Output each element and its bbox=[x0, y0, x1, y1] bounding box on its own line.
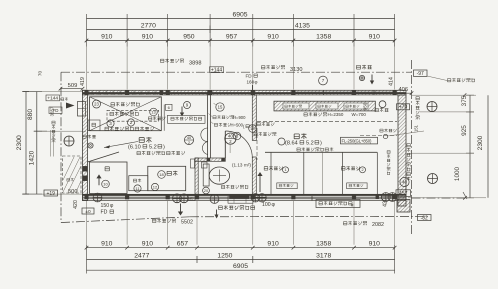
note leader bbox=[209, 114, 213, 117]
label hanging door note1 bbox=[213, 115, 234, 119]
shop dashed line upper bbox=[257, 120, 397, 122]
wall bottom bbox=[83, 194, 407, 200]
label tap 立水栓 bbox=[357, 65, 372, 70]
toilet circled 20 bbox=[203, 187, 210, 194]
counter tiny labels bbox=[285, 105, 302, 108]
svg-text:910: 910 bbox=[369, 33, 381, 40]
vent circle pair right bbox=[381, 193, 390, 202]
kitchen circled 3 bbox=[107, 120, 114, 127]
dim right 375/925/1000 bbox=[469, 95, 471, 198]
svg-text:910: 910 bbox=[267, 241, 279, 248]
svg-text:3130: 3130 bbox=[290, 67, 302, 73]
water heater box bbox=[78, 102, 86, 117]
svg-text:420: 420 bbox=[73, 200, 79, 209]
spice shelf 2 bbox=[347, 183, 367, 189]
bench divider c bbox=[341, 152, 343, 194]
dim top row 910/910/950/957/910/1358/910 bbox=[87, 40, 395, 42]
label 表置場所 bbox=[257, 122, 274, 126]
svg-text:±0: ±0 bbox=[189, 196, 194, 201]
shop circled 40 bbox=[400, 177, 409, 186]
svg-text:): ) bbox=[320, 141, 322, 147]
label レンジフード bbox=[110, 112, 139, 116]
svg-text:18: 18 bbox=[159, 172, 164, 177]
kitchen circled 11 bbox=[134, 185, 141, 192]
label 排水口 bbox=[83, 135, 96, 139]
hall door arc bbox=[225, 131, 252, 158]
entrance door posts bbox=[83, 166, 88, 171]
bench line shop bbox=[265, 151, 377, 153]
dim top 6905 line bbox=[87, 18, 395, 20]
svg-text:2: 2 bbox=[188, 141, 190, 145]
partition kitchen/shop bbox=[252, 95, 256, 140]
label hanging door note2 bbox=[214, 123, 230, 127]
svg-text:+144: +144 bbox=[47, 96, 58, 102]
label 冷 bbox=[105, 167, 109, 171]
label swing door vertical bbox=[387, 151, 390, 175]
svg-text:910: 910 bbox=[267, 33, 279, 40]
label 奥電棚 bbox=[254, 132, 276, 136]
cold table divider bbox=[163, 105, 165, 131]
svg-text:925: 925 bbox=[461, 125, 468, 136]
svg-text:-97: -97 bbox=[417, 71, 424, 77]
svg-text:FL-250(GL+850): FL-250(GL+850) bbox=[342, 139, 373, 144]
kitchen counter stainless bbox=[90, 97, 162, 131]
manhole circle left bbox=[64, 136, 74, 146]
boundary line bottom bbox=[61, 217, 190, 223]
toilet side box bbox=[191, 159, 195, 168]
svg-text:40: 40 bbox=[228, 133, 234, 138]
wall window ticks kitchen bbox=[91, 91, 93, 95]
label テーブル1 bbox=[264, 166, 282, 170]
svg-text:160: 160 bbox=[247, 80, 255, 85]
window lines bottom wall bbox=[88, 195, 399, 197]
arrow up shop bbox=[257, 172, 262, 192]
label boundary bottom-right 2082 bbox=[343, 221, 366, 225]
svg-text:20: 20 bbox=[204, 189, 208, 193]
svg-text:5502: 5502 bbox=[181, 219, 193, 225]
svg-text:150: 150 bbox=[101, 203, 110, 209]
svg-text:375: 375 bbox=[461, 95, 468, 106]
label boundary right vertical bbox=[416, 97, 420, 120]
label boundary top-right 3130 bbox=[261, 65, 284, 69]
svg-text:910: 910 bbox=[142, 33, 154, 40]
label 床:フロアタイル bbox=[297, 148, 333, 152]
survey circle top bbox=[427, 102, 437, 112]
extension lines left dims bbox=[42, 91, 82, 93]
svg-text:H=500: H=500 bbox=[231, 122, 244, 127]
svg-text:6905: 6905 bbox=[232, 11, 247, 18]
range hood dashed bbox=[107, 110, 159, 121]
wall top bbox=[83, 90, 407, 95]
toilet tank bbox=[203, 164, 209, 186]
svg-text:1250: 1250 bbox=[217, 252, 232, 259]
svg-text:100: 100 bbox=[262, 202, 271, 208]
extension lines building to bottom dims bbox=[86, 201, 88, 245]
sink box bbox=[148, 166, 186, 190]
label boundary top-left 3898 bbox=[160, 59, 183, 63]
slope arrow kitchen bbox=[104, 142, 138, 148]
shop circle small bbox=[278, 138, 285, 145]
svg-text:657: 657 bbox=[177, 241, 189, 248]
fridge box bbox=[90, 162, 128, 194]
svg-text:φ: φ bbox=[351, 202, 354, 207]
kitchen circled 12 bbox=[151, 183, 158, 190]
svg-text:5.2: 5.2 bbox=[306, 141, 314, 147]
circled 40 leader bbox=[229, 145, 231, 153]
label road boundary right bbox=[447, 78, 475, 82]
svg-text:2: 2 bbox=[361, 168, 363, 172]
extension lines right dims bbox=[412, 94, 476, 96]
svg-text:910: 910 bbox=[369, 241, 381, 248]
svg-text:H=2350: H=2350 bbox=[328, 112, 344, 117]
circled 40/2 left bbox=[184, 135, 193, 144]
svg-text:910: 910 bbox=[101, 241, 113, 248]
level +70 box bbox=[397, 104, 410, 110]
label ガスコンロ スープレンジ bbox=[105, 127, 154, 131]
drain arrow kitchen bbox=[178, 204, 183, 216]
svg-text:1420: 1420 bbox=[29, 150, 36, 165]
svg-text:414: 414 bbox=[388, 77, 394, 86]
svg-text:2770: 2770 bbox=[141, 22, 156, 29]
svg-text:3898: 3898 bbox=[189, 60, 201, 66]
toilet cistern box bbox=[202, 162, 208, 168]
circled vent top bbox=[319, 76, 328, 85]
level pm0 bottom-left bbox=[82, 208, 94, 214]
svg-text:+70: +70 bbox=[399, 105, 408, 111]
toilet bowl bbox=[209, 167, 229, 184]
toilet circled 8 bbox=[233, 132, 241, 140]
label 炭差付 bbox=[380, 129, 396, 133]
bench divider d bbox=[376, 152, 378, 194]
svg-text:+19: +19 bbox=[46, 191, 55, 197]
level +144 top bbox=[210, 67, 224, 73]
shop dashed line lower bbox=[360, 135, 397, 137]
label カウンター H=2350 bbox=[304, 112, 327, 116]
svg-text:7: 7 bbox=[322, 78, 325, 83]
label 床:モルタル bbox=[137, 151, 185, 155]
label 店舗 bbox=[294, 133, 306, 139]
dim bottom 2477/1250/3178 line bbox=[87, 259, 395, 261]
arrow up kitchen bbox=[96, 174, 101, 185]
label 流し bbox=[167, 171, 177, 176]
label テーブル2 bbox=[341, 166, 359, 170]
label 給湯器 bbox=[61, 97, 68, 100]
svg-text:910: 910 bbox=[142, 241, 154, 248]
dim bottom row 910/910/657/910/1358/910 bbox=[87, 247, 395, 249]
svg-text:70: 70 bbox=[38, 71, 43, 77]
wall posts bbox=[85, 91, 89, 95]
label ステンレス棚板 bbox=[111, 102, 140, 106]
svg-text:3: 3 bbox=[109, 121, 112, 126]
svg-text:910: 910 bbox=[101, 33, 113, 40]
FL level box bbox=[341, 137, 378, 144]
svg-text:FD: FD bbox=[246, 74, 253, 79]
svg-text:1000: 1000 bbox=[454, 166, 461, 181]
label ゆで麺機 bbox=[148, 116, 165, 120]
boundary line bottom-right bbox=[412, 197, 466, 199]
svg-text:H=900: H=900 bbox=[233, 115, 246, 120]
cold table label box bbox=[168, 115, 206, 123]
svg-text:4135: 4135 bbox=[295, 22, 310, 29]
label フロアタイル toilet bbox=[221, 185, 248, 189]
hall circled 40 bbox=[225, 133, 236, 144]
hall door leaf bbox=[224, 131, 226, 158]
steps bottom-right bbox=[397, 200, 410, 213]
kitchen circled 9 bbox=[184, 102, 191, 109]
hall circled 15 bbox=[216, 103, 224, 111]
label 台/W bbox=[133, 179, 141, 183]
kitchen circled 2 bbox=[127, 119, 134, 126]
svg-text:2: 2 bbox=[130, 120, 133, 125]
hall stub wall bbox=[207, 92, 209, 158]
vent circle pair mid bbox=[251, 194, 259, 202]
cold table arrow bbox=[180, 107, 184, 117]
survey circle bottom bbox=[428, 174, 438, 184]
label 人感センサー付 bbox=[218, 205, 254, 209]
svg-text:5.2: 5.2 bbox=[149, 145, 157, 151]
svg-text:957: 957 bbox=[226, 33, 238, 40]
svg-text:FD: FD bbox=[101, 210, 108, 216]
svg-text:13: 13 bbox=[151, 109, 156, 114]
dim left 880/1420 bbox=[36, 92, 38, 195]
label 台 box bbox=[88, 120, 100, 131]
svg-text:19: 19 bbox=[250, 126, 255, 131]
wall left bbox=[83, 90, 88, 200]
svg-text:W=700: W=700 bbox=[352, 112, 367, 117]
svg-text:1358: 1358 bbox=[316, 33, 331, 40]
toilet wall top bbox=[195, 158, 225, 161]
work table 2 bbox=[129, 176, 148, 191]
svg-text:40: 40 bbox=[402, 180, 407, 185]
svg-text:(6.10: (6.10 bbox=[128, 145, 141, 151]
spice shelf 1 bbox=[277, 183, 297, 189]
svg-text:509: 509 bbox=[68, 83, 78, 89]
svg-text:+144: +144 bbox=[211, 67, 222, 73]
svg-text:1358: 1358 bbox=[316, 241, 331, 248]
boundary line left vertical bbox=[60, 72, 62, 222]
bench divider b bbox=[303, 152, 305, 194]
sensor arrow bbox=[215, 210, 219, 219]
svg-text:2082: 2082 bbox=[372, 222, 384, 228]
bench divider mid bbox=[322, 152, 324, 194]
svg-text:10: 10 bbox=[103, 181, 108, 186]
svg-text:8: 8 bbox=[236, 134, 239, 139]
svg-text:(8.64: (8.64 bbox=[285, 141, 298, 147]
svg-text:880: 880 bbox=[27, 109, 34, 120]
level -97 box bbox=[414, 70, 428, 76]
svg-text:419: 419 bbox=[80, 77, 86, 86]
boundary line right vertical bbox=[411, 60, 413, 236]
boundary line top (chain) bbox=[61, 71, 412, 73]
svg-text:): ) bbox=[163, 145, 165, 151]
dim top 2770/4135 line bbox=[87, 29, 395, 31]
label boundary bottom-left 5502 bbox=[152, 219, 175, 223]
shop counter bar bbox=[274, 101, 375, 111]
level +19 box bbox=[44, 190, 58, 196]
level box pm0 toilet bbox=[188, 196, 196, 201]
small box 16 bbox=[166, 104, 173, 110]
window lines top wall shop bbox=[293, 91, 394, 93]
svg-text:950: 950 bbox=[183, 33, 195, 40]
dim 509 bbox=[61, 88, 83, 90]
door threshold dark bbox=[230, 195, 250, 198]
bench divider a bbox=[270, 152, 272, 194]
counter inner label boxes bbox=[283, 103, 309, 109]
toilet wall left bbox=[195, 158, 198, 194]
svg-text:2477: 2477 bbox=[134, 252, 149, 259]
level 457 box bbox=[396, 190, 411, 197]
svg-text:350: 350 bbox=[363, 102, 368, 110]
dim bottom 6905 line bbox=[87, 269, 395, 271]
label 土間コンクリート bbox=[407, 144, 411, 181]
dim left 2300 bbox=[25, 92, 27, 195]
kitchen circled 23 bbox=[93, 100, 101, 108]
folding door arc lower bbox=[202, 142, 207, 155]
svg-text:2300: 2300 bbox=[477, 135, 484, 150]
dim top end/tick extension verticals bbox=[86, 14, 88, 47]
folding door arc upper bbox=[201, 128, 208, 142]
toilet wall posts bbox=[207, 158, 210, 161]
kitchen circled 13 bbox=[150, 108, 158, 116]
svg-text:±0: ±0 bbox=[85, 209, 91, 215]
svg-text:3178: 3178 bbox=[316, 252, 331, 259]
dim 406 bbox=[395, 92, 412, 94]
label コールドテーブル bbox=[171, 117, 202, 121]
vent circle left bbox=[93, 193, 102, 202]
drain circle bbox=[88, 143, 93, 148]
downpipe lines bbox=[50, 130, 52, 157]
svg-text:(1.13: (1.13 bbox=[232, 163, 243, 168]
svg-text:6905: 6905 bbox=[233, 263, 248, 270]
entrance door leaf bbox=[88, 152, 120, 162]
svg-text:m²): m²) bbox=[244, 163, 251, 168]
svg-text:12: 12 bbox=[153, 184, 158, 189]
wall box small bbox=[228, 196, 253, 203]
extension lines top dims to building bbox=[86, 47, 88, 90]
vent circle pair kitchen bbox=[173, 194, 182, 203]
label 厨房 bbox=[139, 137, 151, 143]
entrance ramp bbox=[63, 156, 82, 193]
svg-text:2300: 2300 bbox=[16, 135, 23, 150]
level -82 box bbox=[418, 215, 432, 221]
svg-text:151: 151 bbox=[414, 124, 419, 132]
sink circled 18 bbox=[158, 171, 166, 179]
temp sensor box bbox=[316, 200, 360, 208]
label 消火器 bbox=[379, 101, 386, 108]
tap symbol bbox=[359, 75, 364, 80]
svg-text:FD: FD bbox=[53, 108, 59, 113]
wall tick mid shop bbox=[311, 196, 313, 201]
wall right band bbox=[398, 95, 406, 206]
svg-text:23: 23 bbox=[94, 102, 99, 107]
svg-text:φ: φ bbox=[255, 80, 258, 85]
svg-text:15: 15 bbox=[218, 105, 223, 110]
toilet vent circle pair bbox=[210, 195, 219, 204]
shop circled 19 bbox=[249, 125, 257, 133]
kitchen circled 10 bbox=[102, 180, 110, 188]
svg-text:-82: -82 bbox=[421, 215, 428, 221]
svg-text:1: 1 bbox=[284, 168, 286, 172]
level +144 left box bbox=[46, 95, 60, 101]
dim right 2300 bbox=[487, 95, 489, 198]
FD label left box bbox=[49, 107, 62, 114]
